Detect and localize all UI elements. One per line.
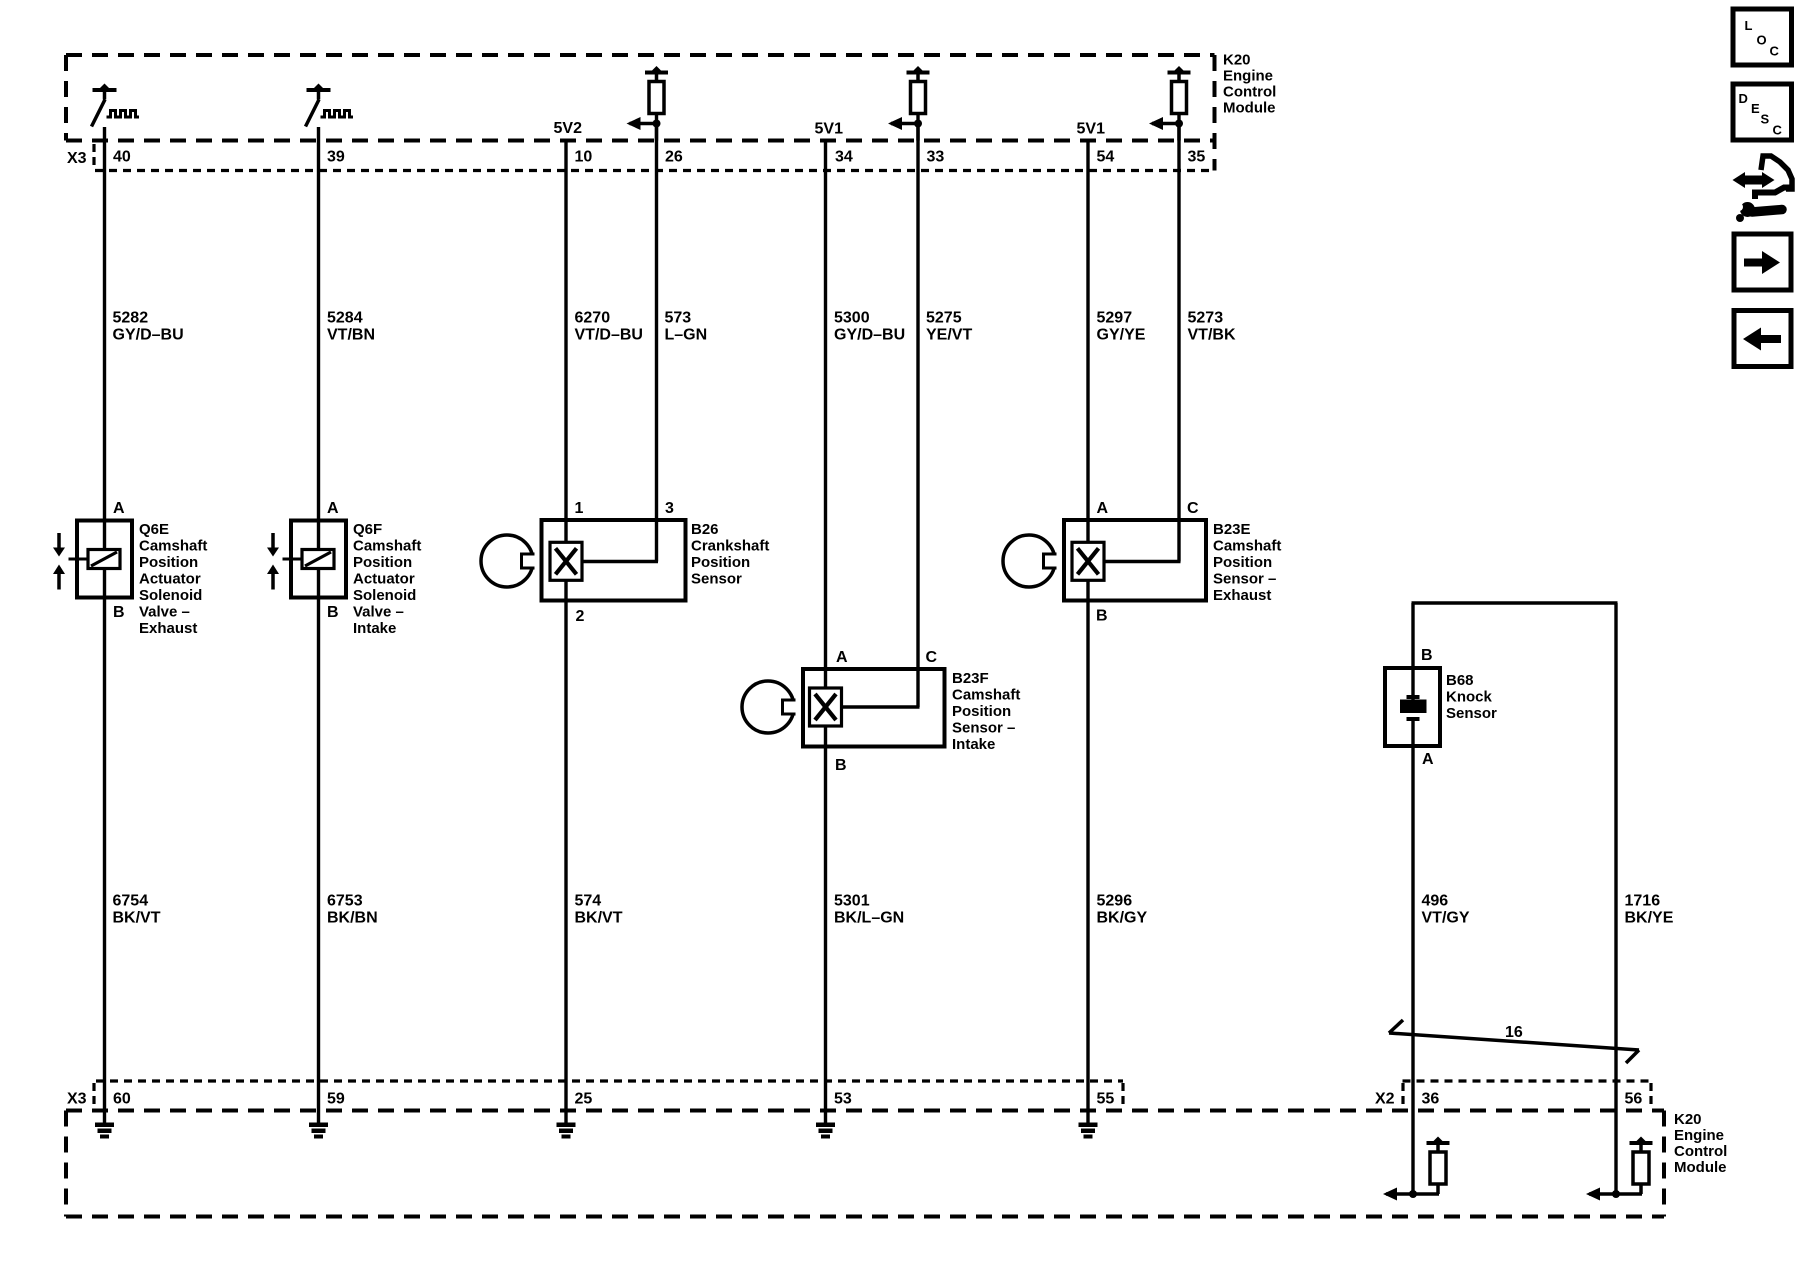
node 5V1 (pin 54)	[1077, 121, 1106, 138]
svg-text:X3: X3	[67, 150, 87, 167]
pin 33	[927, 149, 945, 166]
svg-text:2: 2	[576, 608, 585, 625]
svg-text:BK/VT: BK/VT	[113, 910, 161, 927]
ECM pull-up resistor driver at pin 26	[627, 66, 669, 141]
svg-text:YE/VT: YE/VT	[926, 327, 972, 344]
ground at pin 60	[95, 1123, 114, 1139]
svg-text:B: B	[327, 604, 339, 621]
svg-text:5273: 5273	[1188, 310, 1224, 327]
svg-text:K20: K20	[1674, 1111, 1702, 1128]
svg-text:Position: Position	[952, 703, 1011, 720]
svg-text:54: 54	[1097, 149, 1115, 166]
svg-text:A: A	[1422, 751, 1434, 768]
svg-text:Exhaust: Exhaust	[139, 620, 197, 637]
B23F sensor element (X symbol)	[810, 688, 842, 726]
svg-text:A: A	[113, 500, 125, 517]
ECM low-side driver (switch + PWM) for pin 39	[306, 84, 354, 127]
ECM pull-up resistor driver at pin 33	[888, 66, 930, 141]
svg-text:Sensor –: Sensor –	[952, 720, 1015, 737]
svg-text:C: C	[926, 649, 938, 666]
ground at pin 53	[816, 1123, 835, 1139]
label X3 (top connector)	[67, 150, 87, 167]
svg-text:Camshaft: Camshaft	[952, 687, 1020, 704]
label wire 5296 BK/GY	[1097, 893, 1148, 927]
ECM name text (bottom)	[1674, 1111, 1727, 1176]
svg-text:5V2: 5V2	[554, 120, 583, 137]
ECM pull-up resistor driver at pin 35	[1149, 66, 1191, 141]
solenoid valve Q6E (camshaft position actuator, exhaust)	[53, 521, 132, 598]
K20 ECM top dashed box	[66, 55, 1215, 171]
B23E sensor element (X symbol)	[1072, 542, 1104, 580]
B23F reluctor wheel	[742, 681, 799, 733]
svg-text:Control: Control	[1674, 1143, 1727, 1160]
pin A of Q6F	[327, 500, 339, 517]
wire 496 VT/GY (B68 pin A to X2 pin 36)	[1411, 603, 1414, 1194]
svg-text:Sensor: Sensor	[1446, 705, 1497, 722]
bottom connector X3 pin row (dotted)	[94, 1081, 1123, 1108]
svg-text:5275: 5275	[926, 310, 962, 327]
svg-text:34: 34	[835, 149, 853, 166]
wire 5282/6754 (pin 40 to Q6E to pin 60)	[103, 127, 106, 1126]
DESC icon box	[1733, 84, 1792, 140]
svg-text:Sensor –: Sensor –	[1213, 571, 1276, 588]
pin 55	[1097, 1091, 1115, 1108]
label wire 5284 VT/BN	[327, 310, 375, 344]
svg-text:Actuator: Actuator	[353, 571, 415, 588]
svg-text:A: A	[836, 649, 848, 666]
camshaft position sensor B23E box (exhaust)	[1064, 520, 1206, 601]
svg-text:BK/YE: BK/YE	[1625, 910, 1674, 927]
label X3 (bottom connector)	[67, 1091, 87, 1108]
svg-text:L–GN: L–GN	[665, 327, 708, 344]
pin B of B68	[1421, 647, 1433, 664]
label Q6F Camshaft Position Actuator Solenoid Valve - Intake	[353, 521, 421, 637]
svg-text:B23E: B23E	[1213, 521, 1251, 538]
svg-text:59: 59	[327, 1091, 345, 1108]
label wire 573 L-GN	[665, 310, 708, 344]
ground at pin 25	[557, 1123, 576, 1139]
pin B of Q6F	[327, 604, 339, 621]
svg-text:1: 1	[575, 500, 584, 517]
svg-text:GY/D–BU: GY/D–BU	[834, 327, 905, 344]
svg-text:B26: B26	[691, 521, 719, 538]
svg-text:L: L	[1745, 18, 1753, 33]
pin B of B23E	[1096, 608, 1108, 625]
wire 5275 YE/VT (pin 33 to B23F pin C)	[842, 124, 920, 708]
pin 34	[835, 149, 853, 166]
pin 40	[113, 149, 131, 166]
label wire 5282 GY/D-BU	[113, 310, 184, 344]
svg-text:Camshaft: Camshaft	[139, 538, 207, 555]
pin A of B68	[1422, 751, 1434, 768]
svg-text:BK/L–GN: BK/L–GN	[834, 910, 904, 927]
pin B of B23F	[835, 757, 847, 774]
svg-text:VT/BN: VT/BN	[327, 327, 375, 344]
svg-text:56: 56	[1625, 1091, 1643, 1108]
svg-text:Actuator: Actuator	[139, 571, 201, 588]
svg-text:5284: 5284	[327, 310, 363, 327]
wire 573 L-GN (pin 26 to B26 pin 3)	[582, 124, 658, 562]
pin 3 of B26	[665, 500, 674, 517]
svg-text:VT/GY: VT/GY	[1422, 910, 1470, 927]
svg-text:VT/BK: VT/BK	[1188, 327, 1236, 344]
node 5V1 (pin 34)	[815, 121, 844, 138]
svg-text:Position: Position	[353, 554, 412, 571]
svg-text:6753: 6753	[327, 893, 363, 910]
svg-text:16: 16	[1505, 1024, 1523, 1041]
svg-text:39: 39	[327, 149, 345, 166]
ECM name text (top)	[1223, 52, 1276, 117]
svg-text:33: 33	[927, 149, 945, 166]
ground at pin 55	[1079, 1123, 1098, 1139]
wire 5297/5296 (pin 54 to B23E to pin 55)	[1086, 139, 1089, 1126]
label wire 496 VT/GY	[1422, 893, 1470, 927]
label wire 5273 VT/BK	[1188, 310, 1236, 344]
svg-text:E: E	[1751, 101, 1760, 116]
solenoid valve Q6F (camshaft position actuator, intake)	[267, 521, 346, 598]
crankshaft position sensor B26 box	[542, 520, 686, 601]
svg-text:5282: 5282	[113, 310, 149, 327]
pin 26	[665, 149, 683, 166]
svg-text:5V1: 5V1	[815, 121, 844, 138]
svg-text:55: 55	[1097, 1091, 1115, 1108]
svg-text:B: B	[1421, 647, 1433, 664]
label Q6E Camshaft Position Actuator Solenoid Valve - Exhaust	[139, 521, 207, 637]
ECM low-side driver (switch + PWM) for pin 40	[92, 84, 140, 127]
svg-text:B23F: B23F	[952, 670, 989, 687]
pin B of Q6E	[113, 604, 125, 621]
svg-text:Control: Control	[1223, 84, 1276, 101]
wire 5273 VT/BK (pin 35 to B23E pin C)	[1104, 124, 1181, 562]
label B68 Knock Sensor	[1446, 672, 1497, 722]
svg-text:6754: 6754	[113, 893, 149, 910]
svg-text:B68: B68	[1446, 672, 1474, 689]
svg-text:26: 26	[665, 149, 683, 166]
ground at pin 59	[309, 1123, 328, 1139]
svg-text:574: 574	[575, 893, 602, 910]
svg-text:Engine: Engine	[1674, 1127, 1724, 1144]
svg-text:BK/GY: BK/GY	[1097, 910, 1148, 927]
svg-text:60: 60	[113, 1091, 131, 1108]
pin C of B23E	[1187, 500, 1199, 517]
svg-text:573: 573	[665, 310, 692, 327]
label wire 5300 GY/D-BU	[834, 310, 905, 344]
svg-text:S: S	[1761, 112, 1770, 127]
twisted pair pointer, 16 wires	[1389, 1020, 1639, 1063]
svg-text:VT/D–BU: VT/D–BU	[575, 327, 643, 344]
wire 1716 BK/YE (B68 loop to X2 pin 56)	[1412, 603, 1618, 1194]
svg-text:5296: 5296	[1097, 893, 1133, 910]
svg-text:35: 35	[1188, 149, 1206, 166]
pin 56	[1625, 1091, 1643, 1108]
pin 53	[834, 1091, 852, 1108]
svg-text:B: B	[1096, 608, 1108, 625]
svg-text:10: 10	[575, 149, 593, 166]
pin 54	[1097, 149, 1115, 166]
svg-text:Engine: Engine	[1223, 68, 1273, 85]
svg-text:5300: 5300	[834, 310, 870, 327]
svg-text:Intake: Intake	[952, 736, 995, 753]
pin 36	[1422, 1091, 1440, 1108]
pin 2 of B26	[576, 608, 585, 625]
svg-text:25: 25	[575, 1091, 593, 1108]
ECM sensing resistor at pin 56	[1586, 1137, 1653, 1201]
bottom connector X2 pin row (dotted)	[1403, 1081, 1652, 1108]
svg-text:1716: 1716	[1625, 893, 1661, 910]
pin 39	[327, 149, 345, 166]
pin 60	[113, 1091, 131, 1108]
svg-text:40: 40	[113, 149, 131, 166]
svg-text:3: 3	[665, 500, 674, 517]
node 5V2	[554, 120, 583, 137]
B26 reluctor wheel	[481, 535, 538, 587]
svg-text:5297: 5297	[1097, 310, 1133, 327]
tools / arrows icon	[1733, 156, 1793, 222]
svg-text:C: C	[1770, 44, 1780, 59]
svg-text:D: D	[1739, 91, 1748, 106]
svg-text:B: B	[113, 604, 125, 621]
svg-text:C: C	[1773, 123, 1783, 138]
ECM sensing resistor at pin 36	[1383, 1137, 1450, 1201]
pin A of Q6E	[113, 500, 125, 517]
svg-text:53: 53	[834, 1091, 852, 1108]
label wire 5297 GY/YE	[1097, 310, 1146, 344]
pin A of B23E	[1097, 500, 1109, 517]
svg-text:Camshaft: Camshaft	[353, 538, 421, 555]
pin 25	[575, 1091, 593, 1108]
svg-text:C: C	[1187, 500, 1199, 517]
label wire 5275 YE/VT	[926, 310, 972, 344]
camshaft position sensor B23F box (intake)	[803, 669, 945, 747]
svg-text:Solenoid: Solenoid	[139, 587, 202, 604]
pin C of B23F	[926, 649, 938, 666]
pin 35	[1188, 149, 1206, 166]
svg-text:Intake: Intake	[353, 620, 396, 637]
svg-text:Q6E: Q6E	[139, 521, 169, 538]
svg-text:6270: 6270	[575, 310, 611, 327]
label B23E Camshaft Position Sensor - Exhaust	[1213, 521, 1281, 604]
svg-text:5301: 5301	[834, 893, 870, 910]
label wire 6754 BK/VT	[113, 893, 161, 927]
svg-text:K20: K20	[1223, 52, 1251, 69]
svg-text:Position: Position	[139, 554, 198, 571]
svg-text:Module: Module	[1223, 100, 1276, 117]
svg-text:A: A	[327, 500, 339, 517]
svg-text:496: 496	[1422, 893, 1449, 910]
svg-text:Camshaft: Camshaft	[1213, 538, 1281, 555]
B23E reluctor wheel	[1003, 535, 1060, 587]
svg-text:GY/YE: GY/YE	[1097, 327, 1146, 344]
svg-text:BK/VT: BK/VT	[575, 910, 623, 927]
forward arrow icon box	[1734, 234, 1791, 290]
label wire 6270 VT/D-BU	[575, 310, 643, 344]
svg-text:GY/D–BU: GY/D–BU	[113, 327, 184, 344]
pin A of B23F	[836, 649, 848, 666]
svg-text:Position: Position	[1213, 554, 1272, 571]
svg-text:5V1: 5V1	[1077, 121, 1106, 138]
LOC icon box	[1733, 9, 1792, 65]
wire 6270/574 (pin 10 to B26 to pin 25)	[564, 139, 567, 1126]
wire 5300/5301 (pin 34 to B23F to pin 53)	[824, 139, 827, 1126]
svg-text:Position: Position	[691, 554, 750, 571]
svg-text:Solenoid: Solenoid	[353, 587, 416, 604]
label wire 6753 BK/BN	[327, 893, 378, 927]
svg-text:Valve –: Valve –	[353, 604, 404, 621]
svg-text:X3: X3	[67, 1091, 87, 1108]
svg-text:Q6F: Q6F	[353, 521, 382, 538]
svg-text:Module: Module	[1674, 1159, 1727, 1176]
svg-text:B: B	[835, 757, 847, 774]
pin 10	[575, 149, 593, 166]
B26 sensor element (X symbol)	[550, 542, 582, 580]
svg-text:Sensor: Sensor	[691, 571, 742, 588]
wire 5284/6753 (pin 39 to Q6F to pin 59)	[317, 127, 320, 1126]
pin 1 of B26	[575, 500, 584, 517]
svg-text:Exhaust: Exhaust	[1213, 587, 1271, 604]
K20 ECM bottom dashed box	[66, 1111, 1664, 1217]
svg-text:Crankshaft: Crankshaft	[691, 538, 769, 555]
label B23F Camshaft Position Sensor - Intake	[952, 670, 1020, 753]
svg-text:Valve –: Valve –	[139, 604, 190, 621]
top connector X3 pin row (dotted)	[94, 144, 1215, 171]
svg-text:X2: X2	[1375, 1091, 1395, 1108]
label wire 574 BK/VT	[575, 893, 623, 927]
back arrow icon box	[1734, 311, 1791, 367]
label X2 (bottom connector)	[1375, 1091, 1395, 1108]
label wire 5301 BK/L-GN	[834, 893, 904, 927]
svg-text:Knock: Knock	[1446, 689, 1493, 706]
svg-text:36: 36	[1422, 1091, 1440, 1108]
svg-text:A: A	[1097, 500, 1109, 517]
label B26 Crankshaft Position Sensor	[691, 521, 769, 588]
knock sensor B68	[1385, 668, 1440, 746]
svg-text:O: O	[1757, 33, 1767, 48]
pin 59	[327, 1091, 345, 1108]
svg-text:BK/BN: BK/BN	[327, 910, 378, 927]
label 16	[1505, 1024, 1523, 1041]
label wire 1716 BK/YE	[1625, 893, 1674, 927]
